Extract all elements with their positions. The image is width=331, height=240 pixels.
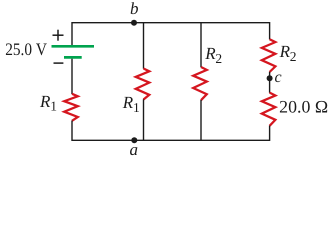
resistor R1 left branch zigzag [64, 94, 78, 121]
wire: right branch bottom segment [269, 126, 271, 141]
svg-text:1: 1 [50, 99, 57, 114]
svg-text:R: R [279, 42, 291, 61]
svg-text:1: 1 [133, 100, 140, 115]
wire: right branch top segment [269, 22, 271, 39]
wire: battery branch middle segment [71, 59, 73, 94]
svg-text:c: c [275, 69, 282, 86]
battery V1 : short negative plate [64, 56, 82, 59]
svg-text:a: a [130, 140, 139, 159]
wire: second branch bottom segment [143, 99, 145, 141]
wire: second branch top segment [143, 22, 145, 69]
battery − terminal sign [54, 62, 64, 64]
node a junction dot [131, 137, 137, 143]
wire: third branch bottom segment [200, 100, 202, 141]
wire: battery branch bottom segment [71, 121, 73, 141]
resistor 20.0 ohm zigzag [262, 93, 276, 126]
wire: third branch top segment [200, 22, 202, 67]
svg-text:R: R [204, 44, 216, 63]
battery V1 25.0 V : long positive plate [52, 45, 95, 48]
svg-text:20.0 Ω: 20.0 Ω [279, 96, 328, 116]
resistor R2 third branch zigzag [193, 67, 207, 100]
wire: bottom rail [72, 139, 270, 141]
svg-text:2: 2 [290, 49, 297, 64]
wire: top rail from battery to right branch [72, 22, 270, 24]
svg-text:2: 2 [215, 51, 222, 66]
node c junction dot [267, 75, 273, 81]
svg-text:R: R [122, 93, 134, 112]
svg-text:R: R [39, 92, 51, 111]
wire: right branch segment between R2 and node c [269, 72, 271, 93]
resistor R2 right branch zigzag [262, 39, 276, 72]
svg-text:b: b [130, 0, 139, 18]
battery + terminal sign [53, 30, 64, 41]
resistor R1 middle branch zigzag [136, 69, 150, 100]
node b junction dot [131, 20, 137, 26]
wire: battery branch top segment [71, 22, 73, 45]
svg-text:25.0 V: 25.0 V [5, 39, 47, 59]
